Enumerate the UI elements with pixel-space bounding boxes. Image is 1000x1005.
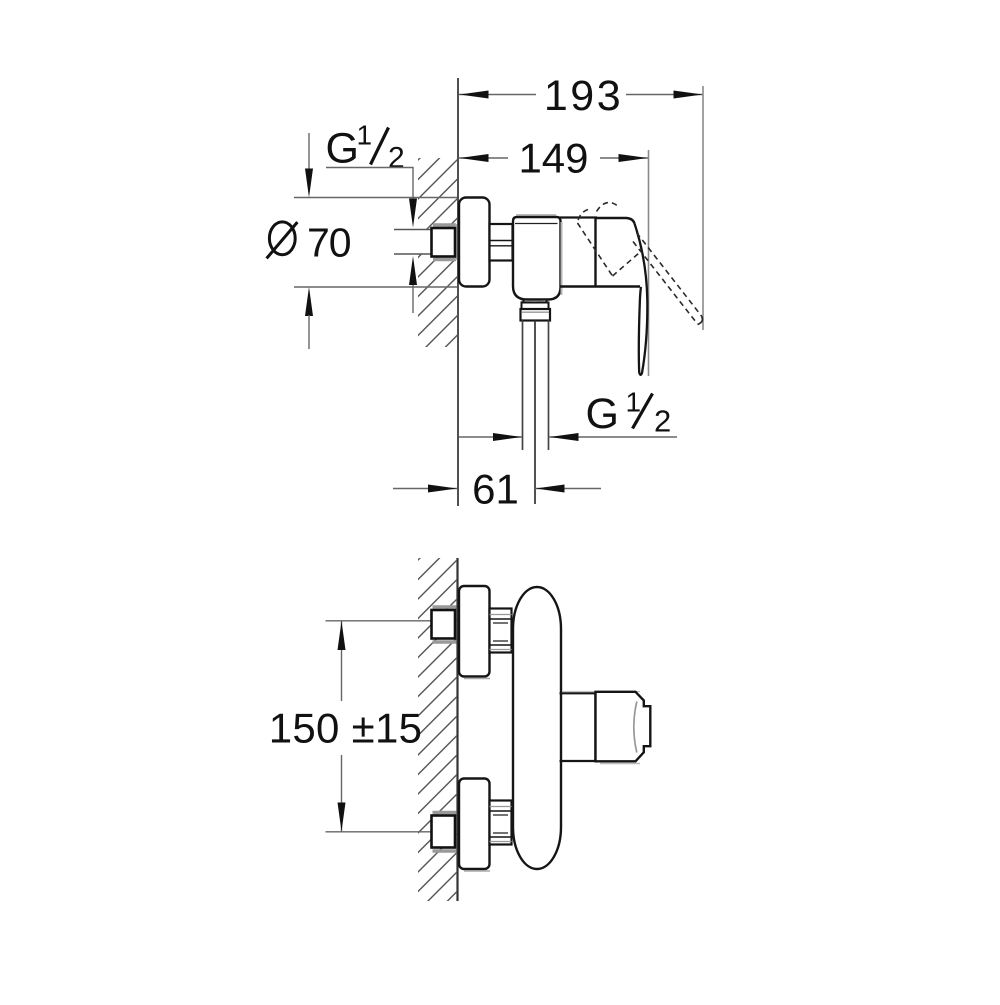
hex nut top (front view): [490, 609, 512, 653]
valve mid-section (side view): [560, 216, 598, 218]
wall hatching (side view): [414, 117, 461, 379]
escutcheon bottom (front view): [459, 779, 490, 870]
handle knob (front view): [596, 692, 651, 762]
dimension 150 plus-minus 15: [326, 620, 432, 622]
handle neck (front view): [562, 691, 640, 693]
svg-text:61: 61: [472, 466, 519, 513]
mixer body (side view): [516, 214, 556, 216]
escutcheon flange (side view): [459, 198, 490, 287]
svg-text:70: 70: [307, 220, 351, 266]
hex connection nut (side view): [490, 224, 513, 261]
extension line for 149 at lever tip: [648, 150, 650, 376]
handle rotation arc (dashed): [597, 203, 619, 212]
shower hose: [522, 321, 524, 451]
dimension 61: [393, 488, 457, 490]
dimension diameter 70: [294, 197, 457, 199]
dimension 149: [459, 157, 508, 159]
leader line for G 1/2: [326, 168, 413, 200]
dimension G 1/2 (hose thread): [459, 436, 522, 438]
svg-text:G: G: [586, 390, 619, 438]
svg-text:150 ±15: 150 ±15: [269, 705, 423, 752]
handle lever (closed position): [635, 224, 648, 375]
square union nut bottom (front view): [432, 816, 456, 848]
square union nut (side view): [432, 228, 456, 257]
extension line for 193 at lever open position: [702, 86, 704, 330]
escutcheon top (front view): [459, 586, 490, 677]
union shoulders bottom (grey): [433, 811, 457, 814]
hex nut bottom (front view): [490, 801, 512, 845]
union shoulders top (grey): [433, 605, 457, 608]
svg-text:G: G: [326, 125, 359, 173]
shower outlet neck: [523, 300, 525, 304]
svg-text:1: 1: [626, 387, 642, 418]
wall line (front view): [456, 558, 458, 901]
wall hatching (front view): [414, 517, 461, 935]
hose coupling nut: [521, 309, 551, 321]
svg-text:2: 2: [654, 404, 671, 439]
dimension 193: [459, 94, 536, 96]
union shoulders (grey): [433, 223, 456, 226]
svg-text:1: 1: [357, 120, 373, 151]
svg-text:193: 193: [544, 72, 623, 120]
handle base block (side view): [596, 218, 635, 287]
svg-text:2: 2: [388, 142, 405, 175]
inlet pipe (side view): [394, 230, 432, 255]
square union nut top (front view): [432, 610, 456, 639]
handle lever open position (dashed): [637, 233, 702, 317]
wall line (side view): [457, 78, 459, 506]
mixer body (front view): [513, 587, 561, 869]
handle open outline (dashed): [578, 210, 589, 223]
svg-text:149: 149: [518, 135, 588, 182]
